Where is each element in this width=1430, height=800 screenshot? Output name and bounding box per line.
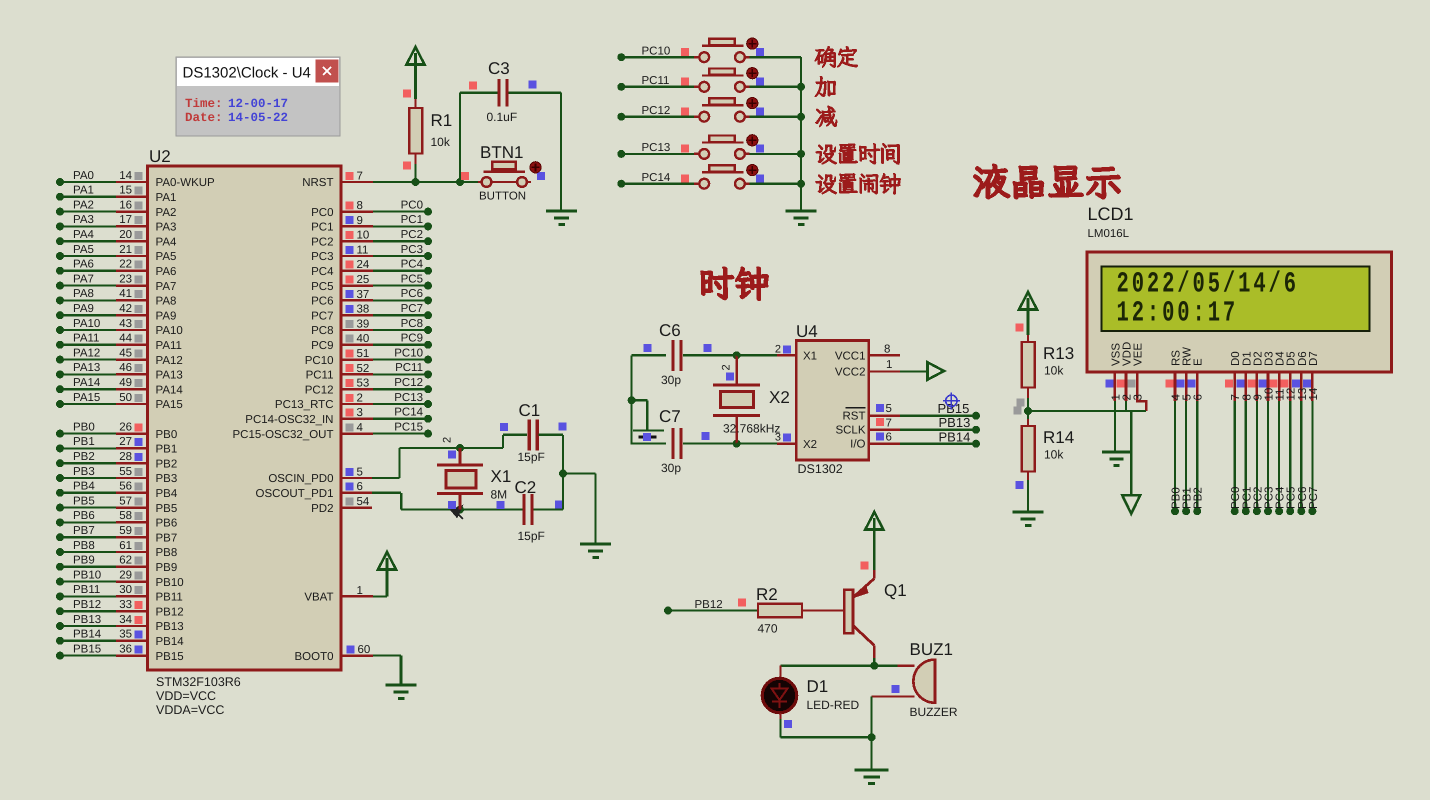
svg-text:60: 60 xyxy=(358,644,371,656)
power flag VCC above R13 xyxy=(1019,292,1037,310)
wire C3 right leg down to button output xyxy=(560,93,562,211)
svg-text:34: 34 xyxy=(119,614,132,626)
svg-text:PB13: PB13 xyxy=(156,621,184,633)
svg-text:35: 35 xyxy=(119,629,132,641)
microcontroller U2 STM32F103R6 body xyxy=(148,166,342,670)
button BTN1 actuator marker xyxy=(530,162,541,173)
svg-text:PB6: PB6 xyxy=(73,510,95,522)
svg-text:PB3: PB3 xyxy=(156,473,178,485)
svg-text:2: 2 xyxy=(442,437,454,443)
svg-text:6: 6 xyxy=(357,481,363,493)
svg-text:PC12: PC12 xyxy=(642,105,671,117)
svg-text:VDDA=VCC: VDDA=VCC xyxy=(156,703,224,717)
svg-text:51: 51 xyxy=(357,348,370,360)
svg-text:17: 17 xyxy=(119,214,132,226)
svg-text:22: 22 xyxy=(119,259,132,271)
pin PC3 (pin 11) of U2 with net label PC3 xyxy=(311,244,432,263)
lcd pin D0 (pin 7) xyxy=(1225,351,1242,401)
svg-text:PC10: PC10 xyxy=(642,45,671,57)
pin PC6 (pin 37) of U2 with net label PC6 xyxy=(311,288,432,307)
bottom wire D1 to buzzer ground node xyxy=(781,736,872,738)
svg-text:PA12: PA12 xyxy=(156,355,183,367)
svg-text:38: 38 xyxy=(357,304,370,316)
svg-text:PB3: PB3 xyxy=(73,466,95,478)
svg-text:PA2: PA2 xyxy=(73,199,94,211)
svg-text:R13: R13 xyxy=(1043,344,1074,363)
wire R14 to ground xyxy=(1027,480,1029,512)
wire C6-C7 left vertical xyxy=(630,355,632,444)
key buttons output bus wire xyxy=(800,57,802,211)
svg-text:PC3: PC3 xyxy=(311,251,333,263)
svg-text:C1: C1 xyxy=(519,401,541,420)
svg-text:27: 27 xyxy=(119,436,132,448)
wire R1 to NRST node xyxy=(414,164,416,182)
svg-text:58: 58 xyxy=(119,510,132,522)
svg-text:PC11: PC11 xyxy=(395,362,423,374)
svg-text:PB4: PB4 xyxy=(73,481,95,493)
transistor Q1 PNP xyxy=(844,562,906,658)
svg-text:4: 4 xyxy=(357,422,364,434)
wire lcd VDD to power wire xyxy=(1125,401,1127,411)
crystal X1 8M xyxy=(437,448,511,510)
svg-text:PC1: PC1 xyxy=(311,222,333,234)
svg-text:PA10: PA10 xyxy=(156,325,183,337)
pin I/O (pin 6) of U4 to PB14 xyxy=(850,429,980,450)
lcd pin D5 (pin 12) xyxy=(1281,351,1298,401)
pin PB4 (pin 56) of U2 xyxy=(56,481,178,500)
svg-text:56: 56 xyxy=(119,481,132,493)
pin PA1 (pin 15) of U2 xyxy=(56,185,176,204)
svg-text:37: 37 xyxy=(357,289,370,301)
pin PA12 (pin 45) of U2 xyxy=(56,347,183,366)
wire node to ground xyxy=(870,737,872,770)
wire D1 cathode down xyxy=(779,713,781,719)
power flag down arrow xyxy=(1122,495,1140,514)
wire Q1 emitter to VCC xyxy=(873,530,876,570)
pin X1 (pin 2) of U4 xyxy=(737,343,817,362)
svg-text:PA8: PA8 xyxy=(156,296,177,308)
pin PB8 (pin 61) of U2 xyxy=(56,540,177,559)
pin PA3 (pin 17) of U2 xyxy=(56,214,176,233)
wire VCC to R13 xyxy=(1027,310,1030,336)
svg-text:PA3: PA3 xyxy=(156,222,177,234)
svg-text:C7: C7 xyxy=(659,407,681,426)
svg-text:X2: X2 xyxy=(769,388,790,407)
pin PA8 (pin 41) of U2 xyxy=(56,288,176,307)
svg-text:PC15: PC15 xyxy=(394,421,423,433)
svg-text:LCD1: LCD1 xyxy=(1088,204,1134,224)
wire collector node to D1 and buzzer xyxy=(781,665,875,667)
svg-text:PC13: PC13 xyxy=(394,392,423,404)
svg-text:PA4: PA4 xyxy=(73,229,94,241)
capacitor C6 30p xyxy=(632,321,737,387)
svg-text:43: 43 xyxy=(119,318,132,330)
svg-text:PA13: PA13 xyxy=(73,362,100,374)
svg-text:PC12: PC12 xyxy=(394,377,423,389)
svg-text:30p: 30p xyxy=(661,461,681,475)
svg-text:24: 24 xyxy=(357,259,370,271)
svg-text:PA5: PA5 xyxy=(73,244,94,256)
svg-text:41: 41 xyxy=(119,288,132,300)
svg-text:52: 52 xyxy=(357,363,370,375)
wire lcd pin 13 to net PC6 xyxy=(1297,401,1309,515)
svg-text:E: E xyxy=(1193,358,1205,366)
svg-text:6: 6 xyxy=(886,431,892,443)
svg-text:U2: U2 xyxy=(149,147,171,166)
svg-text:PB12: PB12 xyxy=(695,599,723,611)
svg-text:Q1: Q1 xyxy=(884,581,907,600)
svg-text:1: 1 xyxy=(357,585,363,597)
pin PA9 (pin 42) of U2 xyxy=(56,303,176,322)
svg-text:62: 62 xyxy=(119,555,132,567)
svg-text:PA7: PA7 xyxy=(73,273,94,285)
capacitor C3 0.1uF xyxy=(460,59,561,182)
svg-text:PA1: PA1 xyxy=(73,185,94,197)
label 确定 xyxy=(815,46,857,67)
svg-text:PA6: PA6 xyxy=(156,266,177,278)
svg-text:7: 7 xyxy=(357,170,363,182)
svg-text:NRST: NRST xyxy=(302,177,333,189)
svg-text:PC5: PC5 xyxy=(401,273,423,285)
svg-text:C2: C2 xyxy=(515,478,537,497)
node at crystal X1 top xyxy=(456,444,464,452)
svg-text:PB14: PB14 xyxy=(156,636,185,648)
power flag VCC at DS1302 xyxy=(928,362,945,379)
svg-text:C3: C3 xyxy=(488,59,510,78)
svg-text:PB5: PB5 xyxy=(73,495,95,507)
pin PC4 (pin 24) of U2 with net label PC4 xyxy=(311,259,432,278)
pin PD2 (pin 54) of U2 xyxy=(311,496,372,515)
svg-text:PC4: PC4 xyxy=(401,259,424,271)
svg-text:36: 36 xyxy=(119,643,132,655)
key button row PC13: node, wire and push button xyxy=(617,136,801,159)
crystal X2 32.768kHz xyxy=(713,355,790,443)
wire lcd pin 11 to net PC4 xyxy=(1275,401,1287,515)
pin PC12 (pin 53) of U2 with net label PC12 xyxy=(305,377,432,396)
svg-text:30p: 30p xyxy=(661,373,681,387)
svg-text:PA6: PA6 xyxy=(73,259,94,271)
resistor R13 10k xyxy=(1016,324,1075,399)
wire lcd pin 5 to net PB1 xyxy=(1182,401,1194,515)
pin PA2 (pin 16) of U2 xyxy=(56,199,176,218)
pin PC2 (pin 10) of U2 with net label PC2 xyxy=(311,229,432,248)
svg-text:PC12: PC12 xyxy=(305,384,334,396)
svg-text:PB2: PB2 xyxy=(156,458,178,470)
svg-text:8M: 8M xyxy=(491,488,508,502)
pin PB6 (pin 58) of U2 xyxy=(56,510,177,529)
svg-text:PC13: PC13 xyxy=(642,142,671,154)
svg-text:10k: 10k xyxy=(431,135,451,149)
pin PB2 (pin 28) of U2 xyxy=(56,451,177,470)
svg-text:PB15: PB15 xyxy=(156,651,184,663)
pin PA15 (pin 50) of U2 xyxy=(56,392,183,411)
wire OSCIN_PD0 to crystal top node xyxy=(372,477,400,479)
wire lcd pin 12 to net PC5 xyxy=(1286,401,1298,515)
lcd contrast power wire xyxy=(1028,410,1146,412)
ground at buzzer xyxy=(855,770,889,784)
svg-text:PA11: PA11 xyxy=(156,340,182,352)
svg-text:PA7: PA7 xyxy=(156,281,177,293)
wire R2 to Q1 base xyxy=(802,609,845,611)
svg-text:PB13: PB13 xyxy=(939,415,971,430)
svg-text:6: 6 xyxy=(1193,394,1205,400)
svg-text:PB0: PB0 xyxy=(156,429,178,441)
svg-text:PC4: PC4 xyxy=(311,266,334,278)
svg-text:2: 2 xyxy=(357,392,363,404)
svg-text:PC0: PC0 xyxy=(311,207,333,219)
pin PA7 (pin 23) of U2 xyxy=(56,273,176,292)
ground at crystal caps xyxy=(580,544,611,558)
svg-text:PB1: PB1 xyxy=(73,436,95,448)
svg-text:SCLK: SCLK xyxy=(835,425,865,437)
svg-text:OSCOUT_PD1: OSCOUT_PD1 xyxy=(256,488,334,500)
svg-text:VBAT: VBAT xyxy=(304,592,333,604)
wire lcd pin 4 to net PB0 xyxy=(1171,401,1183,515)
svg-text:PC11: PC11 xyxy=(642,75,670,87)
svg-text:PB7: PB7 xyxy=(156,532,178,544)
svg-text:5: 5 xyxy=(886,403,892,415)
wire lcd pin 7 to net PC0 xyxy=(1230,401,1242,515)
svg-text:21: 21 xyxy=(119,244,132,256)
svg-text:12-00-17: 12-00-17 xyxy=(228,97,288,111)
buzzer BUZ1 xyxy=(872,640,958,719)
svg-text:2022/05/14/6: 2022/05/14/6 xyxy=(1117,269,1299,302)
svg-text:PA4: PA4 xyxy=(156,236,177,248)
wire to ground of crystal caps xyxy=(563,472,596,474)
svg-text:PA3: PA3 xyxy=(73,214,94,226)
node junction collector xyxy=(870,662,878,670)
button actuator marker PC13 xyxy=(747,135,758,146)
wire stub step at junction xyxy=(632,399,648,401)
lcd pin D3 (pin 10) xyxy=(1259,351,1276,401)
pin OSCOUT_PD1 (pin 6) of U2 xyxy=(256,481,372,500)
svg-text:PC2: PC2 xyxy=(311,236,333,248)
pin PA6 (pin 22) of U2 xyxy=(56,259,176,278)
lcd pin VDD (pin 2) xyxy=(1117,342,1134,401)
resistor R2 470 xyxy=(756,585,802,636)
svg-text:59: 59 xyxy=(119,525,132,537)
svg-text:3: 3 xyxy=(357,407,363,419)
svg-text:8: 8 xyxy=(357,200,363,212)
svg-text:PA0: PA0 xyxy=(73,170,94,182)
svg-text:X1: X1 xyxy=(803,351,817,363)
svg-text:PB14: PB14 xyxy=(73,629,102,641)
svg-text:DS1302: DS1302 xyxy=(798,462,843,476)
ground at lcd VSS xyxy=(1102,452,1131,466)
wire lcd VEE jog xyxy=(1137,401,1146,411)
svg-text:PC10: PC10 xyxy=(305,355,334,367)
svg-text:14: 14 xyxy=(1308,387,1320,400)
resistor R1 10k xyxy=(403,90,452,170)
svg-text:PC7: PC7 xyxy=(1308,487,1320,509)
svg-text:LM016L: LM016L xyxy=(1088,228,1130,240)
svg-text:20: 20 xyxy=(119,229,132,241)
svg-text:PA14: PA14 xyxy=(73,377,101,389)
svg-text:PC6: PC6 xyxy=(311,296,333,308)
svg-text:10k: 10k xyxy=(1044,364,1064,378)
svg-text:PB10: PB10 xyxy=(156,577,184,589)
pin PC8 (pin 39) of U2 with net label PC8 xyxy=(311,318,432,337)
svg-text:PA14: PA14 xyxy=(156,384,184,396)
svg-text:PB15: PB15 xyxy=(938,401,970,416)
svg-text:8: 8 xyxy=(884,343,890,355)
svg-text:PB8: PB8 xyxy=(156,547,178,559)
button actuator marker PC12 xyxy=(747,98,758,109)
key button row PC14: node, wire and push button xyxy=(617,165,801,188)
svg-text:PC7: PC7 xyxy=(311,310,333,322)
svg-text:PA0-WKUP: PA0-WKUP xyxy=(156,177,216,189)
svg-text:PC3: PC3 xyxy=(401,244,423,256)
wire lcd pin 8 to net PC1 xyxy=(1241,401,1253,515)
svg-text:50: 50 xyxy=(119,392,132,404)
lcd pin E (pin 6) xyxy=(1188,358,1205,401)
wire VBAT to power arrow xyxy=(373,595,387,597)
svg-text:R1: R1 xyxy=(431,111,453,130)
svg-text:61: 61 xyxy=(119,540,132,552)
pin NRST (pin 7) of U2 xyxy=(302,170,373,189)
svg-text:Time:: Time: xyxy=(185,97,223,111)
svg-text:U4: U4 xyxy=(796,322,818,341)
svg-text:29: 29 xyxy=(119,569,132,581)
pin PB14 (pin 35) of U2 xyxy=(56,629,184,648)
pin X2 (pin 3) of U4 xyxy=(737,432,817,451)
pin PA5 (pin 21) of U2 xyxy=(56,244,176,263)
svg-text:RST: RST xyxy=(843,410,866,422)
title label 时钟 xyxy=(701,267,767,299)
ground at key buttons bus xyxy=(786,211,817,225)
svg-text:PB12: PB12 xyxy=(73,599,101,611)
svg-text:15pF: 15pF xyxy=(518,450,545,464)
svg-text:26: 26 xyxy=(119,421,132,433)
svg-text:PB4: PB4 xyxy=(156,488,178,500)
pin PA14 (pin 49) of U2 xyxy=(56,377,183,396)
svg-text:PB8: PB8 xyxy=(73,540,95,552)
svg-text:23: 23 xyxy=(119,273,132,285)
ground at BTN1 xyxy=(546,211,577,225)
svg-text:R2: R2 xyxy=(756,585,778,604)
node junction C1 C2 ground branch xyxy=(559,470,567,478)
svg-text:PB5: PB5 xyxy=(156,503,178,515)
svg-text:PC14-OSC32_IN: PC14-OSC32_IN xyxy=(245,414,333,426)
svg-text:PA13: PA13 xyxy=(156,370,183,382)
svg-text:55: 55 xyxy=(119,466,132,478)
svg-text:VEE: VEE xyxy=(1133,343,1145,366)
power flag VCC at Q1 xyxy=(865,512,883,530)
svg-text:PB0: PB0 xyxy=(73,421,95,433)
svg-text:VDD=VCC: VDD=VCC xyxy=(156,689,216,703)
svg-text:VCC1: VCC1 xyxy=(835,351,866,363)
svg-text:PA12: PA12 xyxy=(73,347,100,359)
lcd pin VEE (pin 3) xyxy=(1128,343,1145,401)
svg-text:40: 40 xyxy=(357,333,370,345)
pin PC13 (pin 2) of U2 with net label PC13 xyxy=(275,392,432,411)
lcd pin D6 (pin 13) xyxy=(1292,351,1309,401)
svg-text:OSCIN_PD0: OSCIN_PD0 xyxy=(268,473,333,485)
svg-text:BUZZER: BUZZER xyxy=(910,705,958,719)
pin PB9 (pin 62) of U2 xyxy=(56,555,177,574)
svg-text:11: 11 xyxy=(357,244,369,256)
pin BOOT0 (pin 60) of U2 xyxy=(295,644,373,663)
power flag VCC above R1 xyxy=(407,47,425,65)
lcd pin D1 (pin 8) xyxy=(1236,351,1253,401)
wire VCC to R1 xyxy=(414,65,417,100)
svg-text:X1: X1 xyxy=(491,467,512,486)
node at crystal X2 bottom xyxy=(733,440,741,448)
pin PB15 (pin 36) of U2 xyxy=(56,643,184,662)
pin PB13 (pin 34) of U2 xyxy=(56,614,184,633)
svg-text:LED-RED: LED-RED xyxy=(807,698,860,712)
pin VCC2 (pin 1) of U4 xyxy=(835,359,900,379)
svg-text:2: 2 xyxy=(775,343,781,355)
key button row PC11: node, wire and push button xyxy=(617,68,801,91)
svg-text:VCC2: VCC2 xyxy=(835,367,866,379)
svg-text:PA15: PA15 xyxy=(156,399,183,411)
svg-text:53: 53 xyxy=(357,378,370,390)
capacitor C1 15pF xyxy=(500,401,567,464)
svg-text:470: 470 xyxy=(758,622,778,636)
lcd LCD1 LM016L body xyxy=(1087,252,1392,372)
wire lcd pin 6 to net PB2 xyxy=(1193,401,1205,515)
svg-text:PB6: PB6 xyxy=(156,518,178,530)
svg-text:PC13_RTC: PC13_RTC xyxy=(275,399,334,411)
svg-text:I/O: I/O xyxy=(850,439,865,451)
svg-text:12:00:17: 12:00:17 xyxy=(1117,298,1239,331)
push button BTN1 BUTTON xyxy=(461,143,545,203)
svg-text:PC0: PC0 xyxy=(401,199,423,211)
svg-text:PC14: PC14 xyxy=(642,172,671,184)
svg-text:30: 30 xyxy=(119,584,132,596)
svg-text:10: 10 xyxy=(357,230,370,242)
button actuator marker PC14 xyxy=(747,165,758,176)
pin PB7 (pin 59) of U2 xyxy=(56,525,177,544)
wire lcd pin 10 to net PC3 xyxy=(1264,401,1276,515)
svg-text:10k: 10k xyxy=(1044,448,1064,462)
svg-text:9: 9 xyxy=(357,215,363,227)
lcd pin D4 (pin 11) xyxy=(1270,351,1287,401)
lcd screen xyxy=(1102,267,1370,332)
svg-text:16: 16 xyxy=(119,199,132,211)
svg-text:25: 25 xyxy=(357,274,370,286)
svg-text:BTN1: BTN1 xyxy=(480,143,523,162)
lcd pin D2 (pin 9) xyxy=(1247,351,1264,401)
popup window DS1302/Clock - U4 xyxy=(176,57,340,136)
node at crystal X1 bottom xyxy=(456,506,464,514)
svg-text:PB7: PB7 xyxy=(73,525,95,537)
svg-text:PC10: PC10 xyxy=(394,347,423,359)
svg-text:3: 3 xyxy=(775,432,781,444)
node junction at ground wire xyxy=(868,733,876,741)
wire lcd pin 9 to net PC2 xyxy=(1252,401,1264,515)
wire buzzer to ground node xyxy=(870,697,872,738)
svg-text:STM32F103R6: STM32F103R6 xyxy=(156,675,241,689)
svg-text:14-05-22: 14-05-22 xyxy=(228,111,288,125)
svg-text:PB2: PB2 xyxy=(1193,487,1205,509)
pin VCC1 (pin 8) of U4 xyxy=(835,343,900,362)
resistor R14 10k xyxy=(1016,419,1075,489)
wire VCC2 to power arrow xyxy=(900,370,929,372)
svg-text:PB14: PB14 xyxy=(939,429,971,444)
node junction on C6-C7 left wire xyxy=(628,396,636,404)
wire OSCOUT_PD1 to crystal bottom node xyxy=(372,492,401,494)
pin PC11 (pin 52) of U2 with net label PC11 xyxy=(306,362,432,381)
pin PB11 (pin 30) of U2 xyxy=(56,584,183,603)
node junction divider output xyxy=(1024,407,1032,415)
pin PC0 (pin 8) of U2 with net label PC0 xyxy=(311,199,432,218)
pin OSCIN_PD0 (pin 5) of U2 xyxy=(268,466,372,485)
pin RST (pin 5) of U4 to PB15 xyxy=(843,401,981,423)
svg-text:PC8: PC8 xyxy=(311,325,333,337)
key button row PC10: node, wire and push button xyxy=(617,39,801,62)
